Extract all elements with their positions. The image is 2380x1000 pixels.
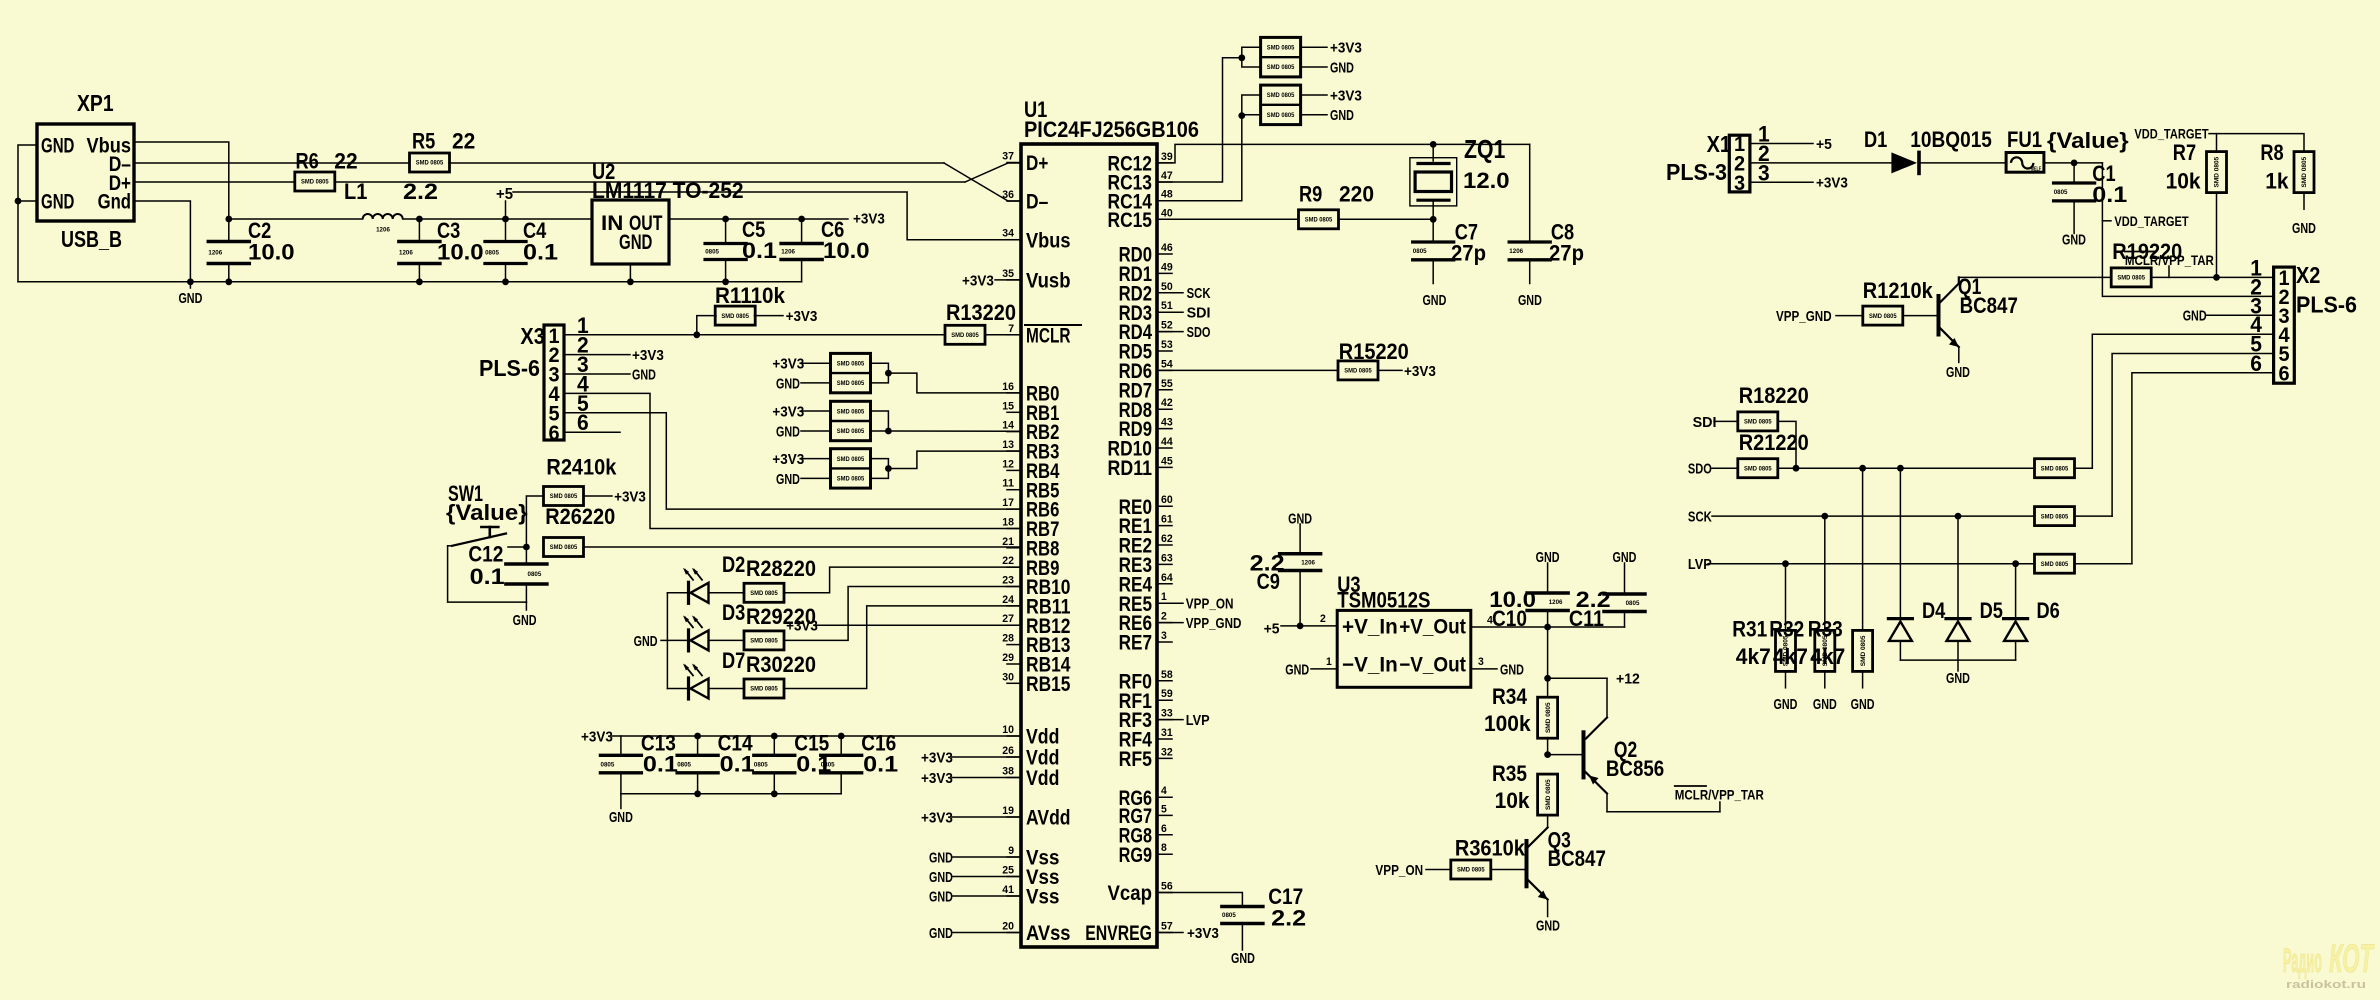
svg-text:D5: D5 bbox=[1980, 598, 2003, 623]
svg-text:18: 18 bbox=[1002, 517, 1014, 529]
svg-text:SMD 0805: SMD 0805 bbox=[550, 493, 578, 500]
capacitor C10 10.0 bbox=[1547, 563, 1549, 591]
svg-text:SMD 0805: SMD 0805 bbox=[416, 160, 444, 167]
svg-text:11: 11 bbox=[1002, 478, 1014, 490]
svg-text:+3V3: +3V3 bbox=[772, 451, 804, 468]
svg-text:R1210k: R1210k bbox=[1863, 278, 1934, 303]
wire MCLR net bbox=[564, 334, 945, 336]
svg-text:BC847: BC847 bbox=[1960, 293, 2018, 318]
wire R5 to crossing bbox=[449, 162, 944, 164]
svg-text:VPP_GND: VPP_GND bbox=[1776, 308, 1832, 325]
svg-text:LVP: LVP bbox=[1186, 712, 1210, 729]
junction R18/SDO bbox=[1793, 465, 1800, 472]
svg-text:+3V3: +3V3 bbox=[581, 728, 613, 745]
svg-text:61: 61 bbox=[1161, 514, 1173, 526]
svg-text:27: 27 bbox=[1002, 613, 1014, 625]
svg-text:AVss: AVss bbox=[1026, 922, 1071, 945]
wire X1 pin1 +5 bbox=[1750, 143, 1813, 145]
svg-text:+5: +5 bbox=[496, 186, 513, 203]
junction C9/+5 bbox=[1297, 623, 1304, 630]
svg-text:Vcap: Vcap bbox=[1108, 882, 1153, 905]
net label SDI (RD3) bbox=[1157, 311, 1183, 313]
svg-text:MCLR: MCLR bbox=[1026, 324, 1071, 347]
svg-text:2.2: 2.2 bbox=[1271, 906, 1306, 931]
svg-text:+5: +5 bbox=[1264, 620, 1280, 637]
wire LVP to riser bbox=[2074, 563, 2132, 565]
resistor pair R14/R16 (RB0) bbox=[831, 353, 871, 392]
wire R26 to RB8 bbox=[584, 546, 1021, 548]
svg-text:R33: R33 bbox=[1808, 617, 1843, 642]
junction pairB bbox=[885, 428, 892, 435]
svg-text:2: 2 bbox=[1161, 611, 1167, 623]
wire Q2 collector bbox=[1606, 678, 1608, 717]
svg-text:VPP_GND: VPP_GND bbox=[1186, 615, 1242, 632]
svg-text:+3V3: +3V3 bbox=[614, 488, 646, 505]
svg-text:+3V3: +3V3 bbox=[1330, 40, 1362, 57]
svg-text:SMD 0805: SMD 0805 bbox=[1457, 867, 1485, 874]
svg-text:20: 20 bbox=[1002, 921, 1014, 933]
svg-text:GND: GND bbox=[1536, 918, 1560, 935]
svg-text:SCK: SCK bbox=[1688, 509, 1712, 526]
net label LVP (RF3) bbox=[1157, 719, 1183, 721]
svg-text:GND: GND bbox=[776, 471, 800, 488]
svg-text:Vusb: Vusb bbox=[1026, 270, 1071, 293]
svg-text:13: 13 bbox=[1002, 439, 1014, 451]
svg-text:C12: C12 bbox=[468, 542, 503, 567]
wire R11 left bbox=[697, 316, 716, 335]
wire R29 to RB10 bbox=[784, 587, 1021, 641]
svg-text:56: 56 bbox=[1161, 881, 1173, 893]
svg-text:L1: L1 bbox=[344, 179, 367, 204]
wire pairT2 left bbox=[1242, 95, 1261, 115]
svg-text:GND: GND bbox=[513, 612, 537, 629]
svg-text:GND: GND bbox=[1774, 696, 1798, 713]
svg-text:1206: 1206 bbox=[208, 250, 222, 257]
svg-text:3: 3 bbox=[1478, 656, 1484, 668]
net label VPP_GND (RE6) bbox=[1157, 622, 1183, 624]
svg-text:47: 47 bbox=[1161, 170, 1173, 182]
svg-text:C11: C11 bbox=[1569, 606, 1604, 631]
svg-text:GND: GND bbox=[929, 925, 953, 942]
wire Vcap to C17 bbox=[1157, 893, 1242, 905]
svg-text:24: 24 bbox=[1002, 594, 1015, 606]
svg-text:+3V3: +3V3 bbox=[1816, 175, 1848, 192]
resistor pair R4/R10 (RC14) bbox=[1261, 85, 1301, 125]
svg-text:+3V3: +3V3 bbox=[632, 347, 664, 364]
svg-text:100k: 100k bbox=[1484, 711, 1531, 736]
svg-text:48: 48 bbox=[1161, 189, 1173, 201]
wire pairT2 +3V3 bbox=[1300, 94, 1327, 96]
wire pairT2 GND bbox=[1300, 114, 1327, 116]
svg-text:radiokot.ru: radiokot.ru bbox=[2286, 979, 2366, 991]
svg-text:ZQ1: ZQ1 bbox=[1464, 134, 1505, 164]
svg-text:6: 6 bbox=[548, 422, 559, 445]
wire X3 pin4 to RB7 bbox=[564, 393, 1021, 528]
capacitor C17 2.2 bbox=[1222, 905, 1263, 909]
junction D4/SDO bbox=[1897, 465, 1904, 472]
svg-text:GND: GND bbox=[1813, 696, 1837, 713]
svg-text:0805: 0805 bbox=[754, 761, 768, 768]
svg-text:32: 32 bbox=[1161, 746, 1173, 758]
resistor R25 (SDO series) bbox=[2035, 459, 2075, 478]
wire R24 left bbox=[526, 496, 543, 547]
svg-text:VPP_ON: VPP_ON bbox=[1375, 862, 1423, 879]
svg-text:33: 33 bbox=[1161, 708, 1173, 720]
svg-text:31: 31 bbox=[1161, 727, 1173, 739]
svg-text:6: 6 bbox=[2278, 362, 2289, 385]
svg-text:PLS-6: PLS-6 bbox=[479, 355, 540, 381]
svg-text:PLS-6: PLS-6 bbox=[2296, 292, 2357, 318]
wire U2 OUT +3V3 rail bbox=[669, 218, 848, 220]
svg-text:Vdd: Vdd bbox=[1026, 767, 1059, 790]
wire +5 rail bbox=[229, 218, 363, 220]
svg-text:SMD 0805: SMD 0805 bbox=[750, 590, 778, 597]
junction XP1 left GND bbox=[15, 198, 22, 205]
svg-text:1206: 1206 bbox=[781, 249, 795, 256]
wire cap bank to GND bbox=[620, 794, 622, 809]
svg-text:−V_In: −V_In bbox=[1342, 654, 1398, 677]
svg-text:R34: R34 bbox=[1492, 684, 1528, 709]
svg-text:D2: D2 bbox=[722, 552, 745, 577]
net label SDO (RD4) bbox=[1157, 331, 1183, 333]
capacitor C12 0.1 bbox=[525, 547, 527, 563]
junction C15 top bbox=[771, 733, 778, 740]
svg-text:2: 2 bbox=[1320, 613, 1326, 625]
wire VDD_TARGET top rail bbox=[2209, 134, 2304, 153]
svg-text:+3V3: +3V3 bbox=[921, 749, 953, 766]
wire R12 to Q1 base bbox=[1903, 315, 1937, 317]
svg-text:27p: 27p bbox=[1451, 241, 1486, 266]
svg-text:0.1: 0.1 bbox=[742, 238, 777, 263]
svg-text:SMD 0805: SMD 0805 bbox=[837, 408, 865, 415]
capacitor C1 0.1 bbox=[2073, 163, 2075, 181]
wire R28 to RB9 bbox=[784, 567, 1021, 593]
wire XP1 left GND rail bbox=[18, 145, 37, 282]
wire X3 pin2 +3V3 bbox=[564, 354, 630, 356]
wire R15 to +3V3 bbox=[1378, 369, 1402, 371]
svg-text:D+: D+ bbox=[1026, 152, 1048, 175]
wire RD6 to R15 bbox=[1157, 369, 1338, 371]
junction ZQ1 bottom/C7 bbox=[1430, 216, 1437, 223]
svg-text:D7: D7 bbox=[722, 648, 745, 673]
svg-text:GND: GND bbox=[1946, 364, 1970, 381]
svg-text:4k7: 4k7 bbox=[1736, 644, 1771, 669]
svg-text:1206: 1206 bbox=[1301, 559, 1315, 566]
svg-text:SMD 0805: SMD 0805 bbox=[1267, 44, 1295, 51]
svg-text:54: 54 bbox=[1161, 358, 1174, 370]
svg-text:3: 3 bbox=[1734, 172, 1745, 195]
svg-text:SMD 0805: SMD 0805 bbox=[301, 179, 329, 186]
svg-text:0.1: 0.1 bbox=[863, 752, 898, 777]
wire pairT1 +3V3 bbox=[1300, 46, 1327, 48]
svg-text:+3V3: +3V3 bbox=[786, 308, 818, 325]
svg-text:SCK: SCK bbox=[1187, 285, 1211, 302]
capacitor C6 10.0 bbox=[801, 219, 803, 242]
LED D2 bbox=[667, 592, 687, 594]
wire RC13 riser bbox=[1157, 58, 1242, 182]
svg-text:+3V3: +3V3 bbox=[772, 403, 804, 420]
svg-text:35: 35 bbox=[1002, 268, 1014, 280]
wire ground rail bbox=[18, 281, 802, 283]
junction R11/MCLR bbox=[693, 331, 700, 338]
svg-text:0805: 0805 bbox=[1626, 600, 1640, 607]
wire pairB +3V3 bbox=[802, 410, 831, 412]
svg-text:Vbus: Vbus bbox=[1026, 229, 1071, 252]
junction R31/LVP bbox=[1782, 560, 1789, 567]
svg-text:53: 53 bbox=[1161, 339, 1173, 351]
svg-text:22: 22 bbox=[452, 128, 475, 153]
svg-text:GND: GND bbox=[1851, 696, 1875, 713]
junction Vbus/C2 bbox=[225, 216, 232, 223]
wire diode common rail bbox=[1900, 659, 2015, 661]
svg-text:21: 21 bbox=[1002, 536, 1014, 548]
svg-text:SMD 0805: SMD 0805 bbox=[2041, 465, 2069, 472]
capacitor C3 10.0 bbox=[418, 219, 420, 240]
svg-text:+3V3: +3V3 bbox=[1330, 87, 1362, 104]
svg-text:+3V3: +3V3 bbox=[786, 618, 818, 635]
junction C6 top bbox=[798, 216, 805, 223]
svg-text:BC847: BC847 bbox=[1548, 846, 1606, 871]
svg-text:GND: GND bbox=[1330, 107, 1354, 124]
svg-text:+3V3: +3V3 bbox=[921, 809, 953, 826]
svg-text:10k: 10k bbox=[2166, 169, 2202, 194]
svg-text:Gnd: Gnd bbox=[98, 191, 131, 214]
wire X3 pin6 stub bbox=[564, 431, 620, 433]
svg-text:9: 9 bbox=[1008, 845, 1014, 857]
svg-text:TSM0512S: TSM0512S bbox=[1337, 588, 1430, 613]
wire R11 right to +3V3 bbox=[754, 315, 783, 317]
svg-text:SMD 0805: SMD 0805 bbox=[1267, 92, 1295, 99]
wire RC15 to R9 bbox=[1157, 218, 1299, 220]
wire +12 branch bbox=[1548, 677, 1607, 679]
svg-text:GND: GND bbox=[632, 366, 656, 383]
wire pairC +3V3 bbox=[802, 458, 831, 460]
junction C16 top bbox=[838, 733, 845, 740]
svg-text:+12: +12 bbox=[1616, 671, 1640, 688]
svg-text:GND: GND bbox=[929, 849, 953, 866]
svg-text:GND: GND bbox=[1231, 950, 1255, 967]
svg-text:41: 41 bbox=[1002, 884, 1014, 896]
wire pairC to RB3 bbox=[871, 459, 889, 479]
svg-text:RB15: RB15 bbox=[1026, 673, 1071, 696]
svg-text:Vss: Vss bbox=[1026, 886, 1059, 909]
capacitor C15 0.1 bbox=[773, 736, 775, 754]
net label VDD_TARGET (mid) bbox=[2102, 220, 2111, 222]
svg-text:50: 50 bbox=[1161, 281, 1173, 293]
svg-text:38: 38 bbox=[1002, 766, 1014, 778]
wire U3 +V_Out bbox=[1471, 626, 1625, 628]
junction C4/ground bbox=[502, 278, 509, 285]
svg-text:Радио: Радио bbox=[2283, 942, 2322, 980]
svg-text:SMD 0805: SMD 0805 bbox=[2301, 156, 2308, 187]
svg-text:SMD 0805: SMD 0805 bbox=[837, 456, 865, 463]
U1 right pins with numbers bbox=[1157, 162, 1172, 164]
svg-text:SMD 0805: SMD 0805 bbox=[837, 380, 865, 387]
svg-text:57: 57 bbox=[1161, 921, 1173, 933]
svg-text:0.1: 0.1 bbox=[643, 752, 678, 777]
LED D3 bbox=[667, 639, 687, 641]
svg-text:X1: X1 bbox=[1707, 131, 1732, 157]
svg-text:SMD 0805: SMD 0805 bbox=[1545, 702, 1552, 733]
junction C2/ground bbox=[225, 278, 232, 285]
svg-text:39: 39 bbox=[1161, 151, 1173, 163]
wire D1 to FU1 bbox=[1921, 162, 2006, 164]
junction C4 top bbox=[502, 216, 509, 223]
svg-text:3: 3 bbox=[1161, 630, 1167, 642]
svg-text:SMD 0805: SMD 0805 bbox=[1545, 779, 1552, 810]
wire X3 pin5 to RB6 bbox=[564, 413, 1021, 509]
wire XP1 D- to R5 bbox=[134, 162, 410, 164]
wire pairB GND bbox=[801, 430, 831, 432]
svg-text:AVdd: AVdd bbox=[1026, 807, 1071, 830]
wire R24 right +3V3 bbox=[584, 495, 612, 497]
svg-text:64: 64 bbox=[1161, 572, 1174, 584]
LED D7 bbox=[667, 688, 687, 690]
svg-text:GND: GND bbox=[929, 888, 953, 905]
svg-text:29: 29 bbox=[1002, 652, 1014, 664]
svg-text:37: 37 bbox=[1002, 151, 1014, 163]
wire R13 to MCLR pin bbox=[985, 334, 1021, 336]
svg-text:SMD 0805: SMD 0805 bbox=[2041, 561, 2069, 568]
svg-text:SMD 0805: SMD 0805 bbox=[2214, 156, 2221, 187]
resistor pair R22/R23 (RB3) bbox=[831, 449, 871, 488]
svg-text:R21220: R21220 bbox=[1739, 430, 1809, 455]
svg-text:SMD 0805: SMD 0805 bbox=[1860, 635, 1867, 666]
svg-text:SMD 0805: SMD 0805 bbox=[2041, 513, 2069, 520]
svg-text:0805: 0805 bbox=[677, 761, 691, 768]
junction C10/R34/+12 bbox=[1544, 675, 1551, 682]
svg-text:1206: 1206 bbox=[399, 250, 413, 257]
svg-text:X2: X2 bbox=[2296, 262, 2320, 288]
svg-text:59: 59 bbox=[1161, 688, 1173, 700]
svg-text:0805: 0805 bbox=[1222, 912, 1236, 919]
svg-text:63: 63 bbox=[1161, 552, 1173, 564]
capacitor C5 0.1 bbox=[725, 219, 727, 242]
wire XP1 Gnd down to ground rail bbox=[134, 201, 190, 288]
wire pairB to RB2 bbox=[871, 411, 889, 431]
wire LED cathode rail bbox=[666, 593, 668, 689]
svg-text:SMD 0805: SMD 0805 bbox=[1869, 313, 1897, 320]
svg-text:SMD 0805: SMD 0805 bbox=[750, 638, 778, 645]
svg-text:28: 28 bbox=[1002, 633, 1014, 645]
svg-text:49: 49 bbox=[1161, 261, 1173, 273]
capacitor C7 27p bbox=[1432, 219, 1434, 240]
junction R33/SDO bbox=[1859, 465, 1866, 472]
svg-text:42: 42 bbox=[1161, 397, 1173, 409]
svg-text:C10: C10 bbox=[1492, 606, 1527, 631]
wire X1 pin3 +3V3 bbox=[1750, 181, 1813, 183]
svg-text:R5: R5 bbox=[412, 128, 435, 153]
wire Q1 collector to R19 bbox=[1959, 276, 2111, 278]
svg-text:5: 5 bbox=[1161, 803, 1167, 815]
svg-text:15: 15 bbox=[1002, 400, 1014, 412]
svg-text:45: 45 bbox=[1161, 455, 1173, 467]
svg-text:0805: 0805 bbox=[2054, 189, 2068, 196]
svg-text:GND: GND bbox=[776, 423, 800, 440]
svg-text:+3V3: +3V3 bbox=[1404, 363, 1436, 380]
wire pairA GND bbox=[801, 382, 831, 384]
svg-text:GND: GND bbox=[2183, 308, 2207, 325]
svg-text:SMD 0805: SMD 0805 bbox=[837, 475, 865, 482]
svg-text:R26220: R26220 bbox=[545, 504, 615, 529]
svg-text:55: 55 bbox=[1161, 378, 1173, 390]
capacitor C8 27p bbox=[1529, 144, 1531, 240]
junction Gnd/rail bbox=[187, 278, 194, 285]
svg-text:{Value}: {Value} bbox=[2047, 128, 2129, 153]
junction R32/SCK bbox=[1821, 513, 1828, 520]
junction C5/ground bbox=[722, 278, 729, 285]
resistor R37 (LVP series) bbox=[2035, 554, 2075, 573]
svg-text:1206: 1206 bbox=[1509, 248, 1523, 255]
svg-text:RF5: RF5 bbox=[1119, 748, 1153, 771]
junction pairT1 bbox=[1238, 54, 1245, 61]
svg-text:PLS-3: PLS-3 bbox=[1666, 159, 1727, 185]
svg-text:R7: R7 bbox=[2173, 140, 2196, 165]
resistor R27 (SCK series) bbox=[2035, 507, 2075, 526]
svg-text:46: 46 bbox=[1161, 242, 1173, 254]
wire RC12 to ZQ1/C8 bbox=[1157, 144, 1530, 163]
svg-text:44: 44 bbox=[1161, 436, 1174, 448]
wire +5 to U1 Vbus pin bbox=[513, 192, 1021, 240]
junction D6/LVP bbox=[2012, 560, 2019, 567]
wire XP1 Vbus to +5 rail bbox=[134, 142, 229, 219]
svg-text:0805: 0805 bbox=[821, 761, 835, 768]
svg-text:R13220: R13220 bbox=[946, 300, 1016, 325]
svg-text:34: 34 bbox=[1002, 228, 1015, 240]
junction C3/ground bbox=[416, 278, 423, 285]
svg-text:+V_Out: +V_Out bbox=[1399, 616, 1466, 639]
power +3V3 (ENVREG) bbox=[1157, 932, 1183, 934]
wire U2 GND to rail bbox=[629, 264, 631, 282]
svg-text:6: 6 bbox=[1161, 823, 1167, 835]
svg-text:0.1: 0.1 bbox=[523, 240, 558, 265]
svg-text:GND: GND bbox=[41, 135, 74, 158]
svg-text:0.1: 0.1 bbox=[2092, 182, 2127, 207]
svg-text:26: 26 bbox=[1002, 745, 1014, 757]
svg-text:23: 23 bbox=[1002, 575, 1014, 587]
junction C14 bottom bbox=[694, 790, 701, 797]
wire C13-C16 bottom rail bbox=[621, 793, 841, 795]
svg-text:+5: +5 bbox=[1816, 136, 1832, 153]
svg-text:R18220: R18220 bbox=[1739, 383, 1809, 408]
svg-text:SMD 0805: SMD 0805 bbox=[1305, 217, 1333, 224]
svg-text:R32: R32 bbox=[1769, 617, 1804, 642]
capacitor C9 2.2 bbox=[1299, 524, 1301, 552]
wire X3 pin3 GND bbox=[564, 373, 630, 375]
svg-text:−V_Out: −V_Out bbox=[1399, 654, 1466, 677]
svg-text:GND: GND bbox=[2062, 232, 2086, 249]
svg-text:R2410k: R2410k bbox=[546, 455, 617, 480]
svg-text:GND: GND bbox=[1518, 292, 1542, 309]
svg-text:LVP: LVP bbox=[1688, 556, 1712, 573]
junction FU1/C1 bbox=[2071, 160, 2078, 167]
svg-text:10k: 10k bbox=[1495, 788, 1531, 813]
net label VPP_ON (RE5) bbox=[1157, 602, 1183, 604]
junction C5 top bbox=[722, 216, 729, 223]
wire XP1 D+ to R6 bbox=[134, 181, 294, 183]
svg-text:52: 52 bbox=[1161, 320, 1173, 332]
capacitor C13 0.1 bbox=[620, 736, 622, 754]
svg-text:1: 1 bbox=[1326, 656, 1332, 668]
svg-text:+3V3: +3V3 bbox=[853, 210, 885, 227]
svg-text:RE7: RE7 bbox=[1119, 632, 1152, 655]
junction C14 top bbox=[694, 733, 701, 740]
svg-text:2.2: 2.2 bbox=[403, 179, 438, 204]
wire R36 to Q3 base bbox=[1491, 869, 1525, 871]
svg-text:GND: GND bbox=[776, 375, 800, 392]
svg-text:SMD 0805: SMD 0805 bbox=[1744, 419, 1772, 426]
svg-text:КОТ: КОТ bbox=[2329, 937, 2375, 981]
